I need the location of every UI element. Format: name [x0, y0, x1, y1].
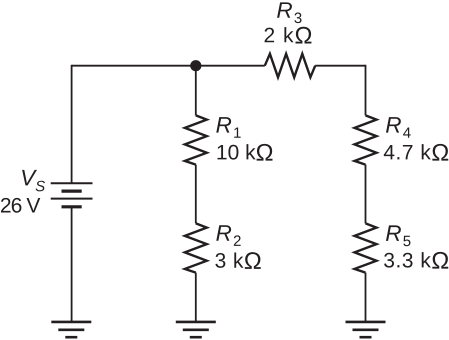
- resistor R3: [265, 54, 315, 78]
- label 3 kOhm: [215, 252, 260, 269]
- label R5: [386, 225, 410, 246]
- wire top horizontal left segment: [72, 65, 265, 67]
- label 10 kOhm: [218, 144, 273, 161]
- label 2 kOhm: [265, 27, 312, 44]
- resistor R5: [355, 223, 377, 272]
- wire right branch between R4 and R5: [365, 165, 367, 224]
- label R3: [277, 2, 301, 23]
- label R1: [216, 117, 240, 138]
- wire left branch lower (battery to ground): [71, 207, 73, 322]
- label R4: [386, 117, 411, 138]
- wire right branch upper (corner to R4): [365, 65, 367, 116]
- ground middle: [176, 322, 216, 337]
- battery VS plate long top: [51, 182, 93, 184]
- label 3.3 kOhm: [384, 252, 448, 269]
- ground left: [51, 322, 91, 337]
- label 4.7 kOhm: [384, 144, 448, 161]
- battery VS plate long lower: [51, 198, 93, 200]
- resistor R4: [355, 115, 377, 164]
- ground right: [346, 322, 386, 337]
- label R2: [216, 225, 240, 246]
- wire top horizontal right segment: [315, 65, 365, 67]
- wire middle branch from node to R1: [195, 66, 197, 116]
- resistor R2: [185, 223, 207, 272]
- battery VS plate short thick: [62, 190, 82, 193]
- wire left branch upper (top wire to battery): [71, 65, 73, 183]
- battery VS plate short thick bottom: [62, 205, 82, 208]
- resistor R1: [185, 115, 207, 164]
- wire right branch R5 to ground: [365, 273, 367, 322]
- wire middle branch R2 to ground: [195, 273, 197, 322]
- label 26 V: [1, 198, 40, 213]
- node junction dot: [190, 60, 201, 71]
- label VS: [22, 170, 45, 191]
- wire middle branch between R1 and R2: [195, 165, 197, 224]
